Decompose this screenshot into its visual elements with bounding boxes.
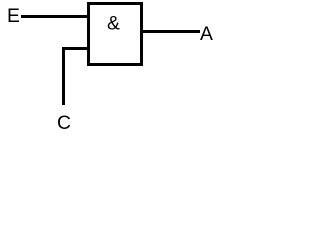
wire E input [21,15,88,18]
wire C horizontal [62,47,89,50]
svg-text:&: & [107,14,120,35]
wire C vertical [62,47,65,105]
wire A output [141,30,200,33]
svg-text:E: E [7,6,20,27]
AND gate U1 (IEC rectangle) [89,4,142,65]
svg-text:C: C [57,113,71,134]
svg-text:A: A [200,24,213,45]
